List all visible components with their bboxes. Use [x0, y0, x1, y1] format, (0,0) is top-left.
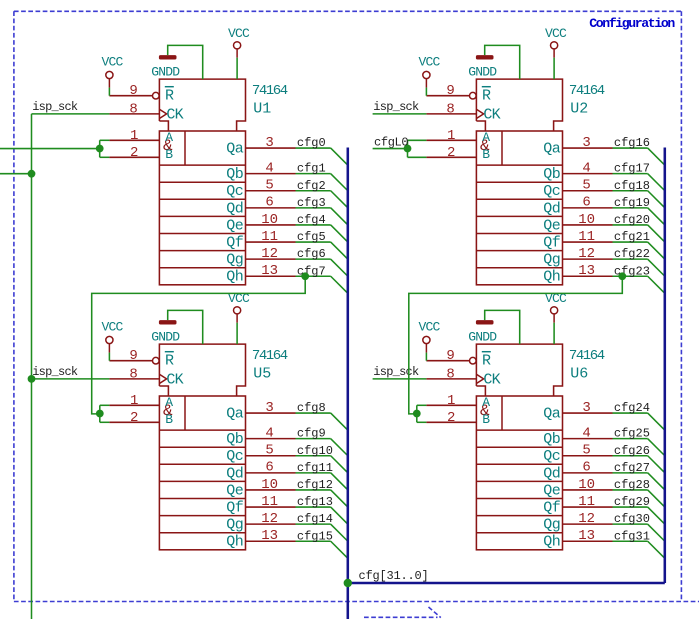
IC U5 pin 1 A [109, 404, 159, 406]
svg-text:13: 13 [261, 528, 278, 544]
power GNDD for U2 [476, 55, 494, 59]
bus entry cfg0 [331, 148, 348, 165]
wire VCC to pin 14 of U1 [236, 58, 238, 79]
svg-text:74164: 74164 [569, 348, 605, 364]
IC U6 pin 2 B [426, 421, 476, 423]
wire input stub to pin 2 of U2 [408, 156, 427, 158]
svg-text:Qf: Qf [226, 234, 244, 251]
svg-text:isp_sck: isp_sck [32, 365, 78, 379]
IC U6 pin 3 Qa [563, 412, 613, 414]
svg-text:Qc: Qc [543, 448, 560, 465]
svg-text:A: A [482, 130, 490, 145]
IC U2 A/B input sub-box divider [501, 131, 503, 165]
svg-text:10: 10 [261, 212, 278, 228]
svg-text:cfg22: cfg22 [614, 247, 650, 261]
svg-text:Qh: Qh [226, 269, 243, 286]
svg-text:cfg7: cfg7 [297, 264, 326, 278]
svg-text:Qg: Qg [226, 517, 243, 534]
svg-text:cfg30: cfg30 [614, 512, 650, 526]
IC U5 pin 5 Qc [246, 455, 296, 457]
svg-text:9: 9 [129, 83, 137, 99]
bus entry cfg9 [331, 439, 348, 456]
svg-text:2: 2 [130, 145, 138, 161]
power VCC (left) for U6 [423, 336, 430, 343]
wire GNDD to pin 7 of U6 [485, 310, 520, 344]
wire isp_sck to pin 8 of U2 [373, 113, 427, 115]
IC U6 output box outline [476, 396, 562, 550]
svg-text:U2: U2 [570, 100, 588, 117]
svg-text:13: 13 [578, 263, 595, 279]
svg-text:A: A [482, 395, 490, 410]
bus entry cfg14 [331, 524, 348, 541]
wire cfg15 [296, 540, 331, 542]
svg-text:13: 13 [578, 528, 595, 544]
IC U2 pin 1 A [426, 139, 476, 141]
IC U2 pin 9 R (reset, active low) [426, 95, 469, 97]
wire cfg27 [613, 472, 648, 474]
svg-text:GNDD: GNDD [151, 65, 180, 80]
IC U1 pin 6 Qd [246, 207, 296, 209]
svg-text:cfg21: cfg21 [614, 230, 650, 244]
wire cfg18 [613, 190, 648, 192]
IC U2 pin 4 Qb [563, 173, 613, 175]
svg-text:B: B [482, 412, 490, 427]
IC U1 pin 8 CK clock [109, 113, 159, 115]
wire cfg14 [296, 523, 331, 525]
svg-text:Qc: Qc [226, 183, 243, 200]
dashed arrow at bottom [364, 616, 438, 618]
svg-text:VCC: VCC [418, 54, 440, 69]
bus cfg[31..0] bottom horizontal [348, 582, 665, 585]
IC U1 cell divider lines [159, 164, 245, 166]
svg-text:Qb: Qb [543, 166, 560, 183]
svg-text:74164: 74164 [252, 348, 288, 364]
svg-text:10: 10 [578, 477, 595, 493]
IC U2 cell divider lines [476, 164, 562, 166]
bus entry cfg1 [331, 174, 348, 191]
svg-text:1: 1 [447, 393, 455, 409]
svg-text:Qb: Qb [226, 431, 243, 448]
IC U5 pin 8 CK clock [109, 378, 159, 380]
svg-text:U6: U6 [570, 365, 588, 382]
IC U6 cell divider lines [476, 429, 562, 431]
svg-text:cfg18: cfg18 [614, 179, 650, 193]
svg-text:cfg11: cfg11 [297, 461, 333, 475]
wire cfg0 [296, 147, 331, 149]
svg-text:Qd: Qd [543, 465, 560, 482]
wire VCC to pin 14 of U6 [553, 323, 555, 344]
wire VCC to pin 9 of U2 [425, 88, 427, 96]
svg-text:Qh: Qh [543, 269, 560, 286]
IC U5 pin 6 Qd [246, 472, 296, 474]
wire cfg19 [613, 207, 648, 209]
power GNDD for U1 [159, 55, 177, 59]
svg-text:11: 11 [261, 229, 278, 245]
wire cfg13 [296, 506, 331, 508]
wire cfg3 [296, 207, 331, 209]
wire cfg23 [613, 275, 648, 277]
svg-text:8: 8 [446, 101, 454, 117]
junction at A/B input of U5 [96, 410, 104, 418]
svg-text:VCC: VCC [101, 319, 123, 334]
svg-text:B: B [165, 147, 173, 162]
svg-text:11: 11 [578, 229, 595, 245]
svg-text:isp_sck: isp_sck [32, 100, 78, 114]
IC U2 pin 2 B [426, 156, 476, 158]
svg-text:cfgL0: cfgL0 [374, 135, 408, 149]
wire isp_sck vertical rail [31, 114, 33, 619]
wire cfgL0 to U2 input junction [373, 148, 408, 150]
svg-text:Qa: Qa [226, 140, 244, 157]
svg-text:5: 5 [582, 443, 590, 459]
svg-text:cfg19: cfg19 [614, 196, 650, 210]
svg-text:3: 3 [582, 400, 590, 416]
IC U5 74164 control box outline [159, 344, 245, 396]
wire cfg1 [296, 173, 331, 175]
wire input stub to pin 1 of U1 [100, 139, 110, 141]
svg-text:Qb: Qb [543, 431, 560, 448]
IC U1 pin 2 B [109, 156, 159, 158]
wire isp_sck to pin 8 of U5 [32, 378, 110, 380]
IC U2 pin 5 Qc [563, 190, 613, 192]
wire input stub to pin 1 of U2 [408, 139, 427, 141]
svg-text:cfg8: cfg8 [297, 401, 326, 415]
IC U6 74164 control box outline [476, 344, 562, 396]
wire cfg20 [613, 224, 648, 226]
wire cfg7 [296, 275, 331, 277]
wire cfg4 [296, 224, 331, 226]
svg-text:B: B [482, 147, 490, 162]
IC U6 pin 11 Qf [563, 506, 613, 508]
svg-text:Qd: Qd [226, 465, 243, 482]
svg-text:cfg24: cfg24 [614, 401, 650, 415]
svg-text:VCC: VCC [101, 54, 123, 69]
bus entry cfg23 [648, 276, 665, 293]
IC U6 pin 10 Qe [563, 489, 613, 491]
svg-text:6: 6 [265, 195, 273, 211]
svg-text:4: 4 [265, 160, 273, 176]
svg-text:cfg4: cfg4 [297, 213, 326, 227]
bus entry cfg7 [331, 276, 348, 293]
wire input stub to pin 2 of U6 [417, 421, 427, 423]
junction on bus at bottom left corner [344, 579, 352, 587]
IC U5 A/B input sub-box divider [184, 396, 186, 430]
svg-text:R: R [482, 353, 491, 370]
IC U5 cell divider lines [159, 429, 245, 431]
wire from left sheet edge to isp_sck rail [0, 173, 32, 175]
power GNDD for U5 [159, 320, 177, 324]
sheet border right edge [680, 11, 682, 601]
svg-text:Qa: Qa [226, 405, 244, 422]
wire cfg5 [296, 241, 331, 243]
svg-text:Qe: Qe [543, 482, 561, 499]
bus entry cfg16 [648, 148, 665, 165]
wire cfg28 [613, 489, 648, 491]
bus entry cfg28 [648, 490, 665, 507]
IC U2 pin 6 Qd [563, 207, 613, 209]
svg-text:2: 2 [130, 410, 138, 426]
power VCC (left) for U5 [106, 336, 113, 343]
IC U6 pin 5 Qc [563, 455, 613, 457]
svg-text:5: 5 [265, 443, 273, 459]
wire cfg29 [613, 506, 648, 508]
bus entry cfg25 [648, 439, 665, 456]
wire cfg24 [613, 412, 648, 414]
wire input stub to pin 1 of U6 [417, 404, 427, 406]
IC U2 pin 10 Qe [563, 224, 613, 226]
bus entry cfg17 [648, 174, 665, 191]
IC U5 pin 3 Qa [246, 412, 296, 414]
IC U6 pin 1 A [426, 404, 476, 406]
svg-text:8: 8 [446, 366, 454, 382]
svg-text:12: 12 [578, 511, 595, 527]
IC U1 pin 4 Qb [246, 173, 296, 175]
svg-text:2: 2 [447, 410, 455, 426]
IC U2 pin 3 Qa [563, 147, 613, 149]
wire VCC to pin 9 of U6 [425, 353, 427, 361]
sheet border bottom edge [14, 601, 699, 603]
svg-text:74164: 74164 [569, 83, 605, 99]
svg-text:cfg26: cfg26 [614, 444, 650, 458]
svg-text:10: 10 [261, 477, 278, 493]
bus entry cfg5 [331, 242, 348, 259]
junction at A/B input of U1 [96, 145, 104, 153]
svg-text:3: 3 [582, 135, 590, 151]
wire input stub to pin 1 of U5 [100, 404, 110, 406]
svg-text:cfg10: cfg10 [297, 444, 333, 458]
svg-text:R: R [165, 88, 174, 105]
wire VCC to pin 14 of U5 [236, 323, 238, 344]
IC U6 pin 13 Qh [563, 540, 613, 542]
svg-text:Qe: Qe [543, 217, 561, 234]
svg-text:cfg3: cfg3 [297, 196, 326, 210]
svg-text:cfg12: cfg12 [297, 478, 333, 492]
IC U2 pin 11 Qf [563, 241, 613, 243]
svg-text:12: 12 [578, 246, 595, 262]
svg-text:12: 12 [261, 511, 278, 527]
svg-text:3: 3 [265, 135, 273, 151]
svg-text:CK: CK [483, 107, 500, 124]
bus cfg[31..0] left vertical [347, 148, 350, 584]
wire cfg7 to U5 A/B input chain [92, 276, 306, 414]
IC U1 pin 12 Qg [246, 258, 296, 260]
IC U1 pin 11 Qf [246, 241, 296, 243]
IC U6 A/B input sub-box divider [501, 396, 503, 430]
wire cfg26 [613, 455, 648, 457]
bus entry cfg15 [331, 541, 348, 558]
svg-text:1: 1 [447, 128, 455, 144]
wire input stub to pin 2 of U5 [100, 421, 110, 423]
svg-text:Qd: Qd [543, 200, 560, 217]
svg-text:10: 10 [578, 212, 595, 228]
bus entry cfg20 [648, 225, 665, 242]
wire cfg9 [296, 438, 331, 440]
bus entry cfg26 [648, 456, 665, 473]
sheet border top edge [14, 10, 682, 12]
power VCC (left) for U2 [423, 71, 430, 78]
svg-text:Qf: Qf [543, 499, 561, 516]
svg-text:6: 6 [582, 460, 590, 476]
bus entry cfg13 [331, 507, 348, 524]
IC U1 pin 1 A [109, 139, 159, 141]
wire cfg11 [296, 472, 331, 474]
svg-text:cfg16: cfg16 [614, 136, 650, 150]
bus entry cfg18 [648, 191, 665, 208]
bus entry cfg19 [648, 208, 665, 225]
wire input vertical between pins 1 and 2 of U1 [99, 140, 101, 157]
svg-text:4: 4 [582, 160, 590, 176]
svg-text:Qa: Qa [543, 140, 561, 157]
wire input vertical between pins 1 and 2 of U5 [99, 405, 101, 422]
IC U5 pin 2 B [109, 421, 159, 423]
svg-text:cfg1: cfg1 [297, 162, 326, 176]
svg-text:6: 6 [265, 460, 273, 476]
svg-text:11: 11 [261, 494, 278, 510]
svg-text:6: 6 [582, 195, 590, 211]
bus entry cfg30 [648, 524, 665, 541]
svg-text:13: 13 [261, 263, 278, 279]
svg-text:VCC: VCC [545, 26, 567, 41]
svg-text:CK: CK [166, 372, 183, 389]
power GNDD for U6 [476, 320, 494, 324]
svg-text:Qb: Qb [226, 166, 243, 183]
power VCC (top right) for U2 [551, 42, 558, 49]
IC U1 pin 5 Qc [246, 190, 296, 192]
bus entry cfg3 [331, 208, 348, 225]
IC U1 pin 10 Qe [246, 224, 296, 226]
IC U2 output box outline [476, 131, 562, 285]
wire cfg12 [296, 489, 331, 491]
junction at A/B input of U2 [404, 145, 412, 153]
svg-text:U1: U1 [253, 100, 271, 117]
svg-text:CK: CK [483, 372, 500, 389]
svg-text:isp_sck: isp_sck [373, 365, 419, 379]
svg-text:9: 9 [446, 348, 454, 364]
wire cfg8 [296, 412, 331, 414]
wire cfg16 [613, 147, 648, 149]
svg-text:cfg20: cfg20 [614, 213, 650, 227]
svg-text:Qf: Qf [543, 234, 561, 251]
junction on cfg23 wire [618, 272, 626, 280]
wire VCC to pin 9 of U1 [108, 88, 110, 96]
svg-text:Qg: Qg [543, 517, 560, 534]
svg-text:cfg2: cfg2 [297, 179, 326, 193]
wire isp_sck to pin 8 of U1 [32, 113, 110, 115]
wire GNDD to pin 7 of U2 [485, 45, 520, 79]
svg-text:5: 5 [265, 178, 273, 194]
svg-text:Qc: Qc [543, 183, 560, 200]
bus entry cfg12 [331, 490, 348, 507]
svg-text:cfg25: cfg25 [614, 427, 650, 441]
bus entry cfg24 [648, 413, 665, 430]
svg-text:9: 9 [129, 348, 137, 364]
svg-text:cfg0: cfg0 [297, 136, 326, 150]
IC U6 pin 4 Qb [563, 438, 613, 440]
IC U5 pin 12 Qg [246, 523, 296, 525]
svg-text:VCC: VCC [418, 319, 440, 334]
wire serial data input to U1 from left sheet edge [0, 148, 100, 150]
wire VCC to pin 14 of U2 [553, 58, 555, 79]
bus entry cfg31 [648, 541, 665, 558]
svg-text:9: 9 [446, 83, 454, 99]
IC U6 pin 8 CK clock [426, 378, 476, 380]
svg-text:cfg5: cfg5 [297, 230, 326, 244]
wire VCC to pin 9 of U5 [108, 353, 110, 361]
wire cfg30 [613, 523, 648, 525]
svg-text:VCC: VCC [228, 26, 250, 41]
bus entry cfg11 [331, 473, 348, 490]
svg-text:Configuration: Configuration [589, 16, 675, 31]
bus entry cfg2 [331, 191, 348, 208]
junction isp_sck rail / left edge wire [28, 170, 36, 178]
wire isp_sck to pin 8 of U6 [373, 378, 427, 380]
IC U1 pin 3 Qa [246, 147, 296, 149]
svg-text:4: 4 [265, 425, 273, 441]
svg-text:74164: 74164 [252, 83, 288, 99]
wire input stub to pin 2 of U1 [100, 156, 110, 158]
IC U6 pin 12 Qg [563, 523, 613, 525]
svg-text:cfg15: cfg15 [297, 529, 333, 543]
wire cfg6 [296, 258, 331, 260]
wire cfg31 [613, 540, 648, 542]
svg-text:R: R [165, 353, 174, 370]
svg-text:8: 8 [129, 101, 137, 117]
svg-text:1: 1 [130, 128, 138, 144]
bus entry cfg29 [648, 507, 665, 524]
bus entry cfg27 [648, 473, 665, 490]
svg-text:cfg29: cfg29 [614, 495, 650, 509]
svg-text:5: 5 [582, 178, 590, 194]
svg-text:Qg: Qg [226, 252, 243, 269]
IC U2 74164 control box outline [476, 79, 562, 131]
svg-text:cfg27: cfg27 [614, 461, 650, 475]
wire GNDD to pin 7 of U5 [168, 310, 203, 344]
wire cfg10 [296, 455, 331, 457]
wire GNDD to pin 7 of U1 [168, 45, 203, 79]
svg-text:Qf: Qf [226, 499, 244, 516]
IC U2 pin 12 Qg [563, 258, 613, 260]
junction isp_sck rail at U5 clock wire [28, 375, 36, 383]
junction on cfg7 wire [301, 272, 309, 280]
svg-text:CK: CK [166, 107, 183, 124]
power VCC (left) for U1 [106, 71, 113, 78]
svg-text:12: 12 [261, 246, 278, 262]
IC U5 pin 9 R (reset, active low) [109, 360, 152, 362]
wire cfg21 [613, 241, 648, 243]
IC U1 A/B input sub-box divider [184, 131, 186, 165]
IC U1 pin 13 Qh [246, 275, 296, 277]
wire cfg2 [296, 190, 331, 192]
svg-text:cfg6: cfg6 [297, 247, 326, 261]
svg-text:11: 11 [578, 494, 595, 510]
svg-text:2: 2 [447, 145, 455, 161]
IC U1 output box outline [159, 131, 245, 285]
power VCC (top right) for U5 [234, 307, 241, 314]
svg-text:U5: U5 [253, 365, 271, 382]
IC U1 pin 9 R (reset, active low) [109, 95, 152, 97]
bus entry cfg6 [331, 259, 348, 276]
IC U1 74164 control box outline [159, 79, 245, 131]
IC U5 pin 11 Qf [246, 506, 296, 508]
svg-text:cfg14: cfg14 [297, 512, 333, 526]
bus entry cfg4 [331, 225, 348, 242]
svg-text:cfg13: cfg13 [297, 495, 333, 509]
wire input vertical between pins 1 and 2 of U2 [407, 140, 409, 157]
wire cfg23 to U6 A/B input chain [409, 276, 623, 414]
sheet border left edge [13, 11, 15, 601]
bus cfg[31..0] tail to bottom sheet edge [347, 583, 350, 619]
IC U2 pin 13 Qh [563, 275, 613, 277]
